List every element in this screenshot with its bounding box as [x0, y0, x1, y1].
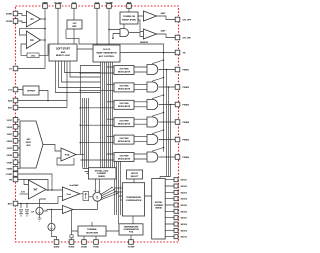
svg-text:PWM6: PWM6	[183, 157, 190, 159]
op-amp INT	[28, 180, 46, 199]
svg-text:SOFT START: SOFT START	[56, 48, 70, 51]
svg-text:DGND: DGND	[81, 247, 87, 249]
svg-text:SDO03: SDO03	[181, 192, 188, 194]
svg-text:DIGITAL LOAD: DIGITAL LOAD	[95, 169, 109, 172]
wire thermal shutdown pins	[72, 196, 152, 239]
svg-text:CLOCK: CLOCK	[103, 49, 111, 51]
svg-text:BST: BST	[8, 204, 13, 206]
wire reg stubs r4	[80, 119, 114, 125]
wire reg stubs r5	[80, 137, 114, 143]
wire reg stubs r2	[80, 84, 114, 90]
svg-text:SDO10: SDO10	[181, 237, 188, 239]
svg-text:DIG PWM: DIG PWM	[120, 68, 129, 70]
modulator block 2	[114, 83, 134, 92]
svg-text:COMP: COMP	[6, 174, 13, 176]
and gate 4	[147, 117, 158, 127]
svg-text:VS2N: VS2N	[6, 141, 12, 143]
current source D	[36, 207, 43, 214]
wire offset pin	[18, 90, 48, 101]
ground cap C1	[19, 214, 23, 217]
svg-text:THERMAL: THERMAL	[87, 228, 98, 231]
wire mux out to pga	[43, 145, 61, 152]
svg-text:MODULATOR: MODULATOR	[118, 140, 131, 143]
svg-text:SGND: SGND	[6, 14, 13, 16]
mux	[20, 121, 43, 168]
osc box	[27, 53, 39, 58]
wire triangle A1 inputs	[18, 14, 26, 23]
pin PWM5	[175, 137, 180, 142]
svg-text:SHUTDOWN: SHUTDOWN	[86, 232, 98, 234]
wire FB pin	[18, 180, 48, 191]
pin VS2P	[13, 132, 18, 137]
svg-text:DROOP: DROOP	[131, 173, 139, 175]
op-amp A1	[26, 11, 40, 27]
svg-text:CURRENT: CURRENT	[154, 205, 164, 207]
wire droop to tempcomp	[133, 179, 135, 183]
wire reg stubs r1	[80, 67, 114, 73]
thermal shutdown block	[78, 226, 106, 236]
wire reset line to enable rail	[66, 29, 164, 152]
pin FB	[13, 177, 18, 182]
svg-text:SDO01: SDO01	[181, 180, 188, 182]
comparator C2	[143, 29, 156, 39]
svg-text:SENSE: SENSE	[155, 208, 162, 210]
pin SDO7	[174, 216, 178, 220]
svg-text:CURRENT: CURRENT	[97, 173, 107, 175]
wire buffer out to multiplier	[73, 201, 97, 209]
pin VS2N	[13, 139, 18, 144]
pin VDD33	[13, 19, 18, 24]
svg-text:AGND: AGND	[54, 246, 60, 249]
svg-text:DIGITAL: DIGITAL	[155, 201, 163, 204]
pin PWM4	[175, 120, 180, 125]
wire src D ground	[39, 215, 41, 218]
svg-text:VS1P: VS1P	[7, 120, 13, 122]
wire reg stubs r6	[80, 154, 114, 160]
wire gate inputs	[134, 67, 147, 159]
pin DGND bottom	[82, 240, 87, 245]
wire mux pin stubs	[18, 120, 20, 169]
and gate 2	[147, 82, 158, 92]
pin PWM3	[175, 102, 180, 107]
pin PWM2	[175, 85, 180, 90]
svg-text:TEMPERATURE: TEMPERATURE	[126, 196, 141, 199]
wire gm1 to box	[80, 194, 93, 197]
pin VREF top	[43, 4, 48, 9]
pin SDO3	[174, 190, 178, 194]
svg-text:SELECT: SELECT	[131, 176, 139, 178]
pin OD_OFF	[175, 17, 180, 22]
svg-text:DIG PWM: DIG PWM	[120, 138, 129, 140]
svg-text:4-BIT: 4-BIT	[161, 12, 167, 15]
pin RESET top	[127, 4, 132, 9]
pin SA1	[13, 105, 18, 110]
pin PWM6	[175, 155, 180, 160]
wire pin RESET into POR	[128, 9, 130, 12]
svg-text:SDO02: SDO02	[181, 186, 188, 188]
pin CT1	[13, 87, 18, 92]
pin VCORE top	[107, 4, 112, 9]
cap C2	[25, 210, 29, 214]
pin FLAGIN top	[56, 4, 61, 9]
wire SA0	[18, 100, 67, 102]
digital current sense block	[152, 179, 166, 240]
IC boundary dashed red border	[16, 6, 179, 242]
pin SA0	[13, 98, 18, 103]
ref block 2V5	[67, 20, 82, 29]
wire POR to gate/comparators	[129, 16, 143, 37]
svg-text:REF: REF	[72, 26, 77, 28]
pin VDD33 top	[95, 4, 100, 9]
svg-text:TN: TN	[183, 53, 186, 55]
multiplier circle	[93, 192, 102, 201]
wire adc data bus down	[83, 98, 89, 168]
wire ref block to soft start	[73, 29, 75, 44]
current share block	[89, 168, 117, 179]
pin SGND	[13, 11, 18, 16]
wire POR down to andA	[109, 24, 124, 38]
wire comp2 out to pin	[157, 34, 177, 38]
svg-text:SDO04: SDO04	[181, 198, 188, 201]
wire tempcomp stubs	[115, 188, 123, 200]
wire bus to small box	[83, 169, 95, 176]
svg-text:PWM4: PWM4	[183, 121, 190, 124]
resistor above RGND pin	[70, 235, 73, 238]
svg-text:PGA: PGA	[129, 231, 134, 234]
svg-text:VS4N: VS4N	[6, 168, 12, 171]
svg-text:VREF: VREF	[42, 3, 48, 5]
wire gate outputs to pins	[159, 70, 176, 158]
svg-text:MODULATOR: MODULATOR	[118, 105, 131, 108]
svg-text:PWM3: PWM3	[183, 105, 190, 107]
pin SDO1	[174, 178, 178, 182]
svg-text:RGND: RGND	[69, 247, 75, 249]
wire pga feedback loop	[57, 158, 74, 165]
wire vertical x45	[18, 9, 45, 69]
pin BST	[13, 201, 18, 206]
small box bus	[94, 171, 99, 177]
svg-text:VS2P: VS2P	[7, 134, 13, 136]
svg-text:DIG PWM: DIG PWM	[120, 121, 129, 123]
svg-text:VS3N: VS3N	[6, 155, 12, 157]
wire A1 output to node	[41, 18, 46, 20]
wire TN pin line	[120, 52, 176, 54]
svg-text:RESET LOGIC: RESET LOGIC	[56, 55, 71, 57]
ground src D	[38, 218, 42, 221]
cap C1	[19, 210, 23, 214]
pin VC	[13, 66, 18, 71]
wire src E	[52, 210, 57, 240]
wire INT out	[46, 189, 62, 191]
svg-text:DIG PWM: DIG PWM	[120, 155, 129, 157]
pin VS1P	[13, 118, 18, 123]
svg-text:TCOMP: TCOMP	[128, 247, 136, 249]
svg-text:VDDN: VDDN	[6, 21, 12, 23]
pin SDO6	[174, 209, 178, 213]
svg-text:PWM2: PWM2	[183, 87, 190, 89]
svg-text:EA: EA	[30, 38, 34, 42]
wire pin VCORE down	[108, 9, 110, 45]
temperature compensation block	[122, 183, 144, 216]
svg-text:RAMP GENERATOR: RAMP GENERATOR	[96, 52, 117, 55]
pin SDO2	[174, 184, 178, 188]
wire pin 2V5 into ref block	[73, 9, 75, 20]
svg-text:SDO07: SDO07	[181, 218, 188, 220]
wire bus diagonals	[101, 188, 118, 200]
and gate 6	[147, 152, 158, 162]
comparator C1	[143, 11, 156, 21]
svg-text:VS3P: VS3P	[7, 148, 13, 150]
pin SDO10	[174, 235, 178, 239]
current source E	[48, 223, 55, 230]
droop block	[127, 170, 143, 179]
svg-text:4-BIT: 4-BIT	[161, 30, 167, 33]
svg-text:VCORE: VCORE	[105, 3, 113, 5]
pin PGND bottom	[94, 240, 99, 245]
svg-text:INPUT: INPUT	[26, 142, 32, 144]
pin COMP	[13, 172, 18, 177]
pin SDO9	[174, 228, 178, 232]
svg-text:ADC CONTROL: ADC CONTROL	[99, 55, 115, 58]
wire pwm feedback verticals	[167, 70, 171, 177]
svg-text:ADC: ADC	[27, 138, 32, 141]
wire soft start bottom nest	[56, 61, 101, 93]
svg-text:PGA: PGA	[65, 154, 70, 157]
wire BST line	[18, 203, 58, 205]
wire sdo stubs	[165, 180, 174, 237]
svg-text:COMPENSATION: COMPENSATION	[126, 199, 142, 202]
wire pga blk to pin	[130, 235, 132, 239]
wire EA output	[41, 39, 46, 41]
wire gm lower input	[40, 196, 63, 207]
and gate A	[120, 29, 128, 37]
svg-text:MODULATOR: MODULATOR	[118, 70, 131, 73]
svg-text:OV_SEL: OV_SEL	[54, 3, 63, 5]
pin SDO5	[174, 203, 178, 207]
svg-text:FB: FB	[9, 180, 12, 182]
wire vertical x58 to soft start	[57, 9, 59, 44]
svg-text:VS1N: VS1N	[6, 127, 12, 129]
svg-text:GN_OFF: GN_OFF	[183, 20, 192, 22]
svg-text:GN_OW: GN_OW	[183, 38, 192, 40]
modulator block 1	[114, 66, 134, 75]
and gate 1	[147, 65, 158, 75]
and gate 5	[147, 135, 158, 145]
modulator block 5	[114, 135, 134, 144]
ground cap C2	[25, 214, 29, 217]
svg-text:VC: VC	[9, 69, 12, 71]
wire reg stubs r3	[80, 102, 114, 108]
pin TN	[175, 50, 180, 55]
temp comp pga block	[119, 224, 143, 235]
svg-text:TEMPERATURE: TEMPERATURE	[124, 225, 139, 228]
svg-text:MODULATOR: MODULATOR	[118, 123, 131, 126]
POR block	[120, 12, 138, 24]
op-amp Gm1	[62, 187, 79, 201]
svg-text:OSC: OSC	[31, 56, 36, 58]
wire tempcomp to pga blk	[132, 216, 134, 224]
svg-text:Σ: Σ	[96, 196, 98, 200]
clock block	[93, 45, 120, 62]
wire 0.5V ref input	[20, 193, 29, 195]
pin PWM1	[175, 67, 180, 72]
wire pga out to bus	[76, 154, 84, 156]
svg-text:RESETB: RESETB	[140, 42, 148, 44]
svg-text:MODULATOR: MODULATOR	[118, 157, 131, 160]
svg-text:OFFSET: OFFSET	[27, 91, 36, 93]
wire cap taps	[21, 204, 27, 209]
svg-text:PWM5: PWM5	[183, 140, 190, 142]
svg-text:SDO06: SDO06	[181, 211, 188, 213]
gain box	[83, 192, 89, 201]
pga amp	[61, 148, 76, 161]
wire src D to buffer	[43, 210, 62, 212]
wire pin 71 vertical	[71, 210, 73, 240]
modulator block 6	[114, 153, 134, 162]
buffer amp	[62, 206, 73, 214]
pin AGND bottom	[54, 240, 59, 245]
soft start block	[49, 44, 77, 61]
wire right bus down	[115, 160, 121, 224]
and gate 3	[147, 100, 158, 110]
svg-text:PGND: PGND	[93, 247, 99, 249]
svg-text:AND: AND	[61, 51, 66, 54]
offset block	[23, 86, 39, 95]
wire enable diagonals	[152, 60, 164, 151]
pin VS1N	[13, 124, 18, 129]
wire pin VDD33 into clock blk	[96, 9, 98, 45]
svg-text:DIG PWM: DIG PWM	[120, 86, 129, 88]
pin VS3P	[13, 146, 18, 151]
pin 2V5 top	[72, 4, 77, 9]
svg-text:VDD: VDD	[95, 3, 100, 5]
svg-text:POWER-ON: POWER-ON	[123, 16, 135, 18]
pin SDO8	[174, 222, 178, 226]
op-amp EA	[26, 31, 40, 49]
modulator block 4	[114, 118, 134, 127]
wire comp1 out to pin	[157, 16, 177, 20]
svg-text:SDO09: SDO09	[181, 230, 188, 232]
pin RGND bottom	[69, 240, 74, 245]
wire feedback into sense blk	[160, 177, 171, 179]
wire EA upper input	[20, 29, 46, 35]
svg-text:Gm1: Gm1	[67, 194, 73, 196]
svg-text:RES: RES	[127, 3, 132, 5]
wire adc bus verticals	[101, 62, 113, 168]
pin TCOMP bottom	[129, 240, 134, 245]
pin VS4N	[13, 166, 18, 171]
wires-group	[18, 9, 176, 240]
pin OD_ON	[175, 35, 180, 40]
svg-text:SHARE: SHARE	[98, 175, 105, 178]
wire SA1	[18, 61, 67, 108]
svg-text:PWM1: PWM1	[183, 70, 190, 72]
svg-text:5mA MAX: 5mA MAX	[70, 184, 80, 187]
pin VS3N	[13, 153, 18, 158]
pin SDO4	[174, 197, 178, 201]
svg-text:MODULATOR: MODULATOR	[118, 88, 131, 91]
svg-text:RESET (POR): RESET (POR)	[122, 20, 136, 22]
wire reg feed rail x80	[79, 66, 81, 156]
svg-text:VS4P: VS4P	[7, 161, 13, 164]
wire share block arrows to multiplier	[95, 179, 99, 193]
svg-text:SDO05: SDO05	[181, 205, 188, 207]
pin VS4P	[13, 160, 18, 165]
modulator block 3	[114, 100, 134, 109]
wire COMP pin	[18, 174, 52, 190]
wire osc feedback	[21, 44, 48, 55]
svg-text:COMPENSATION: COMPENSATION	[123, 228, 139, 231]
svg-text:INT: INT	[34, 189, 38, 192]
svg-text:DIG PWM: DIG PWM	[120, 103, 129, 105]
svg-text:SDO08: SDO08	[181, 224, 188, 226]
